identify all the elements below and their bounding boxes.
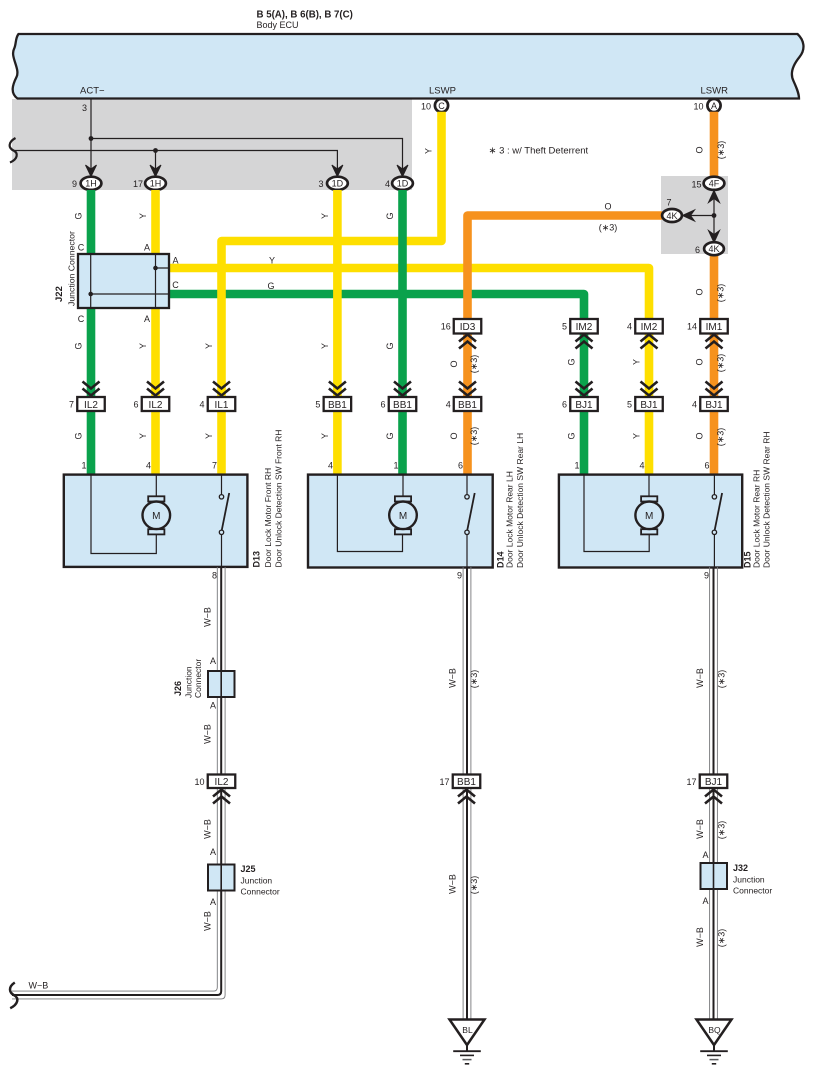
- chevron down above BB1 4: [459, 382, 476, 396]
- svg-text:10: 10: [421, 102, 431, 112]
- svg-text:(∗3): (∗3): [716, 354, 726, 373]
- connector box IL2 pin 10: [194, 775, 235, 789]
- D15 door lock motor rear RH box: [559, 475, 742, 568]
- svg-text:4: 4: [627, 322, 632, 332]
- svg-text:4K: 4K: [708, 244, 719, 254]
- svg-text:G: G: [74, 342, 84, 349]
- svg-text:6: 6: [562, 400, 567, 410]
- svg-text:A: A: [702, 850, 708, 860]
- D13 door lock motor front RH box: [64, 475, 248, 567]
- wire orange from LSWR A to 4F: [710, 112, 719, 177]
- svg-text:1: 1: [574, 461, 579, 471]
- arrow into 4 1D: [397, 165, 408, 177]
- svg-text:Connector: Connector: [241, 887, 280, 897]
- wire yellow column IL1 to D13: [217, 411, 226, 475]
- 4F 4K assembly internal wiring: [690, 190, 714, 242]
- junction node on ACT- wire: [89, 136, 94, 141]
- connector circle A pin 10: [693, 99, 720, 112]
- svg-text:D13: D13: [252, 551, 262, 568]
- svg-text:Connector: Connector: [193, 659, 203, 698]
- wire green column J22 to IL2: [87, 308, 96, 397]
- chevron up below IM1: [706, 335, 723, 349]
- svg-text:A: A: [144, 314, 150, 324]
- svg-text:(∗3): (∗3): [717, 929, 727, 948]
- svg-text:G: G: [385, 342, 395, 349]
- wire yellow column BJ1 to D15: [645, 411, 654, 475]
- wire green column IL2 to D13: [87, 411, 96, 475]
- svg-text:J32: J32: [733, 863, 748, 873]
- svg-text:4: 4: [146, 461, 151, 471]
- svg-text:C: C: [78, 243, 85, 253]
- wire orange IM1 to BJ1: [710, 334, 719, 398]
- D14 switch pin6: [465, 475, 475, 567]
- chevron down above BJ1 4: [706, 382, 723, 396]
- wire yellow column 1D3 to BB1: [333, 190, 342, 397]
- connector oval 4K pin 7: [662, 198, 682, 223]
- wire drop to 17 1H: [155, 151, 157, 169]
- svg-text:Door Unlock Detection SW Rear: Door Unlock Detection SW Rear LH: [515, 433, 525, 568]
- svg-text:10: 10: [194, 777, 204, 787]
- connector oval 1H pin 9: [72, 177, 101, 190]
- svg-text:Y: Y: [204, 343, 214, 349]
- svg-text:Y: Y: [632, 433, 642, 439]
- svg-text:Door Lock Motor Front RH: Door Lock Motor Front RH: [263, 468, 273, 568]
- svg-text:Y: Y: [138, 213, 148, 219]
- connector oval 4K pin 6: [695, 242, 724, 255]
- wire orange column ID3 to BB1: [463, 334, 472, 398]
- svg-text:Y: Y: [424, 148, 434, 154]
- arrow up into 15 4F: [709, 191, 720, 203]
- svg-text:W−B: W−B: [29, 981, 49, 991]
- svg-text:BB1: BB1: [393, 400, 412, 411]
- svg-text:J26: J26: [173, 681, 183, 696]
- svg-text:∗ 3 : w/ Theft Deterrent: ∗ 3 : w/ Theft Deterrent: [489, 146, 589, 157]
- svg-text:1: 1: [81, 461, 86, 471]
- D14 internal wire pin1 to motor: [402, 475, 404, 496]
- svg-text:5: 5: [315, 400, 320, 410]
- svg-text:Y: Y: [138, 343, 148, 349]
- svg-text:O: O: [449, 432, 459, 439]
- svg-text:O: O: [695, 432, 705, 439]
- wire orange from 6 4K to IM1: [710, 255, 719, 319]
- arrow into 9 1H: [86, 165, 97, 177]
- J26 junction connector: [208, 671, 235, 697]
- arrow down into 6 4K: [709, 231, 720, 243]
- J32 junction connector: [701, 863, 728, 889]
- svg-text:BJ1: BJ1: [640, 400, 658, 411]
- W-B wire from D14 pin 9 to BL ground: [463, 567, 471, 1019]
- junction node to 17 1H: [153, 148, 158, 153]
- svg-text:C: C: [172, 280, 179, 290]
- svg-text:W−B: W−B: [448, 874, 458, 894]
- svg-text:O: O: [695, 288, 705, 295]
- svg-text:A: A: [210, 656, 216, 666]
- W-B wire from D15 pin 9 to BQ ground: [710, 567, 718, 1019]
- svg-text:W−B: W−B: [203, 607, 213, 627]
- svg-text:A: A: [144, 243, 150, 253]
- svg-text:Junction: Junction: [733, 875, 765, 885]
- connector box BB1 pin 6: [380, 397, 416, 411]
- svg-text:6: 6: [133, 400, 138, 410]
- wire yellow column IL2 to D13: [151, 411, 160, 475]
- svg-text:W−B: W−B: [203, 724, 213, 744]
- D15 internal wire pin1 to motor: [584, 475, 649, 552]
- svg-text:17: 17: [686, 777, 696, 787]
- svg-text:G: G: [74, 212, 84, 219]
- connector box IM2 pin 4: [627, 319, 663, 334]
- D14 door lock motor rear LH box: [308, 475, 493, 568]
- svg-text:(∗3): (∗3): [716, 428, 726, 447]
- connector box BJ1 pin 6: [562, 397, 598, 411]
- svg-text:4F: 4F: [709, 179, 720, 189]
- svg-text:BJ1: BJ1: [705, 777, 723, 788]
- gray box around 4F/4K: [661, 176, 728, 254]
- connector box IL2 pin 6: [133, 397, 169, 411]
- svg-text:ID3: ID3: [460, 322, 476, 333]
- svg-text:BB1: BB1: [458, 400, 477, 411]
- motor M of D14: [389, 496, 417, 534]
- chevron down above BJ1 5: [641, 382, 658, 396]
- D15 internal wire pin4 to motor: [648, 475, 650, 496]
- D13 internal wire pin1 to motor: [91, 475, 156, 554]
- connector box ID3 pin 16: [441, 319, 482, 334]
- svg-text:W−B: W−B: [203, 911, 213, 931]
- wire yellow column J22 to IL2: [151, 308, 160, 397]
- svg-text:Connector: Connector: [733, 886, 772, 896]
- wire yellow column to BJ1 right: [645, 334, 654, 398]
- svg-text:5: 5: [627, 400, 632, 410]
- connector oval 1D pin 3: [318, 177, 347, 190]
- svg-text:M: M: [645, 511, 653, 522]
- svg-text:G: G: [385, 212, 395, 219]
- svg-text:(∗3): (∗3): [469, 355, 479, 374]
- chevron up below IM2 5: [576, 335, 593, 349]
- connector box BJ1 pin 5: [627, 397, 663, 411]
- arrow left into 7 4K: [683, 210, 695, 221]
- svg-text:A: A: [711, 101, 717, 111]
- svg-text:BL: BL: [462, 1025, 473, 1035]
- svg-text:Y: Y: [320, 433, 330, 439]
- connector oval 4F pin 15: [691, 177, 724, 190]
- svg-text:IM1: IM1: [706, 322, 723, 333]
- ground BL: [450, 1020, 485, 1064]
- chevron up below BJ1 17: [705, 790, 722, 804]
- svg-text:Door Lock Motor Rear LH: Door Lock Motor Rear LH: [505, 471, 515, 568]
- svg-text:G: G: [267, 281, 274, 291]
- svg-text:G: G: [567, 432, 577, 439]
- svg-text:15: 15: [691, 180, 701, 190]
- connector box BB1 pin 4: [446, 397, 482, 411]
- svg-text:Y: Y: [204, 433, 214, 439]
- svg-text:7: 7: [69, 400, 74, 410]
- chevron up below BB1 17: [458, 790, 475, 804]
- svg-text:IL1: IL1: [215, 400, 229, 411]
- svg-text:BB1: BB1: [328, 400, 347, 411]
- svg-text:Junction Connector: Junction Connector: [67, 231, 77, 306]
- connector box BJ1 pin 4: [692, 397, 728, 411]
- svg-text:(∗3): (∗3): [469, 670, 479, 689]
- svg-text:Body ECU: Body ECU: [257, 20, 299, 30]
- svg-text:4: 4: [692, 400, 697, 410]
- svg-text:17: 17: [133, 179, 143, 189]
- svg-text:4: 4: [328, 461, 333, 471]
- svg-text:5: 5: [562, 322, 567, 332]
- D14 internal wire pin4 to motor: [337, 475, 402, 552]
- svg-text:9: 9: [704, 571, 709, 581]
- wire green column 1D4 to BB1: [398, 190, 407, 397]
- svg-text:LSWP: LSWP: [429, 86, 456, 97]
- svg-text:O: O: [695, 358, 705, 365]
- svg-text:1H: 1H: [150, 179, 162, 189]
- connector oval 1H pin 17: [133, 177, 166, 190]
- wire green column to IM2 right: [580, 334, 589, 398]
- D13 internal wire pin4 to motor: [155, 475, 157, 496]
- chevron up below ID3: [459, 335, 476, 349]
- svg-text:4: 4: [385, 179, 390, 189]
- arrow into 3 1D: [332, 165, 343, 177]
- svg-text:IL2: IL2: [215, 777, 229, 788]
- svg-text:A: A: [210, 701, 216, 711]
- svg-text:BB1: BB1: [457, 777, 476, 788]
- svg-text:6: 6: [704, 461, 709, 471]
- svg-text:Y: Y: [269, 256, 275, 266]
- J25 junction connector: [208, 865, 235, 891]
- svg-text:(∗3): (∗3): [716, 284, 726, 303]
- svg-text:IL2: IL2: [84, 400, 98, 411]
- thin wire from ACT- pin 3: [90, 99, 92, 169]
- wire ACT- branch to 4 1D: [91, 139, 403, 169]
- motor M of D15: [635, 496, 663, 534]
- svg-text:G: G: [567, 358, 577, 365]
- svg-text:6: 6: [695, 245, 700, 255]
- wire green column 1H9 to J22: [87, 190, 96, 254]
- chevron down above IL2 7: [83, 382, 100, 396]
- chevron up below IL2 10: [213, 790, 230, 804]
- svg-text:Y: Y: [138, 433, 148, 439]
- svg-text:J25: J25: [241, 864, 256, 874]
- svg-text:1: 1: [393, 461, 398, 471]
- svg-text:G: G: [74, 432, 84, 439]
- svg-text:(∗3): (∗3): [716, 141, 726, 160]
- svg-text:W−B: W−B: [695, 819, 705, 839]
- svg-text:IM2: IM2: [641, 322, 658, 333]
- svg-text:C: C: [78, 314, 85, 324]
- W-B wire from D13 pin 8 down and left off-page: [12, 567, 225, 999]
- svg-text:O: O: [695, 146, 705, 153]
- svg-text:LSWR: LSWR: [701, 86, 729, 97]
- connector box IM1 pin 14: [687, 319, 728, 334]
- svg-text:10: 10: [693, 102, 703, 112]
- svg-text:J22: J22: [54, 286, 65, 302]
- connector box IL1 pin 4: [199, 397, 235, 411]
- connector box BJ1 pin 17: [686, 775, 727, 789]
- svg-text:4: 4: [446, 400, 451, 410]
- motor M of D13: [143, 496, 171, 534]
- svg-text:9: 9: [457, 571, 462, 581]
- svg-text:Door Unlock Detection SW Rear: Door Unlock Detection SW Rear RH: [762, 431, 772, 568]
- svg-text:ACT−: ACT−: [80, 86, 105, 97]
- svg-text:(∗3): (∗3): [469, 427, 479, 446]
- wire yellow column 1H17 to J22: [151, 190, 160, 254]
- wire yellow from J22 A to IM2 (horizontal then down): [165, 268, 649, 319]
- chevron up below IM2 4: [641, 335, 658, 349]
- svg-text:16: 16: [441, 322, 451, 332]
- svg-text:17: 17: [439, 777, 449, 787]
- svg-text:IL2: IL2: [149, 400, 163, 411]
- svg-text:M: M: [399, 511, 407, 522]
- svg-text:O: O: [604, 202, 611, 212]
- svg-text:9: 9: [72, 179, 77, 189]
- svg-text:IM2: IM2: [576, 322, 593, 333]
- wire yellow column BB1 to D14: [333, 411, 342, 475]
- svg-text:4: 4: [639, 461, 644, 471]
- wire orange BJ1 to D15: [710, 411, 719, 475]
- svg-text:A: A: [210, 897, 216, 907]
- svg-text:G: G: [385, 432, 395, 439]
- chevron down above BJ1 6: [576, 382, 593, 396]
- svg-text:Y: Y: [320, 343, 330, 349]
- gray harness band (left): [12, 99, 412, 190]
- svg-text:C: C: [438, 101, 445, 111]
- svg-text:O: O: [449, 360, 459, 367]
- svg-text:A: A: [172, 256, 178, 266]
- svg-text:Door Unlock Detection SW Front: Door Unlock Detection SW Front RH: [274, 430, 284, 568]
- svg-text:Junction: Junction: [241, 876, 273, 886]
- connector box BB1 pin 5: [315, 397, 351, 411]
- svg-text:A: A: [702, 896, 708, 906]
- svg-text:1H: 1H: [85, 179, 97, 189]
- svg-text:Junction: Junction: [184, 666, 194, 698]
- svg-text:(∗3): (∗3): [469, 876, 479, 895]
- svg-text:1D: 1D: [332, 179, 344, 189]
- connector circle C pin 10: [421, 99, 448, 112]
- connector oval 1D pin 4: [385, 177, 413, 190]
- svg-text:A: A: [210, 847, 216, 857]
- wire green column BB1 to D14: [398, 411, 407, 475]
- wire yellow from LSWP C down and left to IL1 column: [222, 112, 442, 397]
- D13 switch pin7: [219, 475, 229, 567]
- svg-text:M: M: [152, 511, 160, 522]
- svg-text:4: 4: [199, 400, 204, 410]
- svg-text:3: 3: [318, 179, 323, 189]
- chevron down above IL1 4: [213, 382, 230, 396]
- chevron down above BB1 6: [394, 382, 411, 396]
- svg-text:W−B: W−B: [203, 819, 213, 839]
- connector box BB1 pin 17: [439, 775, 480, 789]
- chevron down above BB1 5: [329, 382, 346, 396]
- svg-text:6: 6: [458, 461, 463, 471]
- wire green from J22 C to IM2 (horizontal then down): [165, 294, 584, 319]
- wire from off-page to 3 1D: [12, 151, 337, 169]
- ground BQ: [697, 1020, 732, 1064]
- svg-text:8: 8: [212, 571, 217, 581]
- J22 junction connector: [78, 254, 169, 308]
- svg-text:14: 14: [687, 322, 697, 332]
- Body ECU block B: [13, 34, 804, 99]
- svg-text:7: 7: [212, 461, 217, 471]
- D15 switch pin6: [712, 475, 722, 567]
- svg-text:3: 3: [82, 103, 87, 113]
- wire green column BJ1 to D15: [580, 411, 589, 475]
- svg-text:(∗3): (∗3): [599, 223, 618, 233]
- break mark top-left: [10, 138, 17, 163]
- svg-text:Y: Y: [320, 213, 330, 219]
- svg-text:7: 7: [666, 198, 671, 208]
- connector box IL2 pin 7: [69, 397, 105, 411]
- svg-text:BJ1: BJ1: [705, 400, 723, 411]
- svg-text:6: 6: [380, 400, 385, 410]
- svg-text:Door Lock Motor Rear RH: Door Lock Motor Rear RH: [752, 470, 762, 568]
- break mark bottom-left: [10, 983, 17, 1009]
- svg-text:(∗3): (∗3): [717, 670, 727, 689]
- svg-text:BJ1: BJ1: [575, 400, 593, 411]
- arrow into 17 1H: [150, 165, 161, 177]
- svg-text:(∗3): (∗3): [717, 821, 727, 840]
- svg-text:W−B: W−B: [695, 668, 705, 688]
- svg-text:BQ: BQ: [708, 1025, 721, 1035]
- wire orange column BB1 to D14: [463, 411, 472, 475]
- wire orange horizontal to 7 4K and down to ID3: [468, 216, 663, 320]
- svg-text:1D: 1D: [397, 179, 409, 189]
- svg-text:4K: 4K: [666, 211, 677, 221]
- svg-text:W−B: W−B: [448, 668, 458, 688]
- svg-text:Y: Y: [632, 359, 642, 365]
- connector box IM2 pin 5: [562, 319, 598, 334]
- chevron down above IL2 6: [147, 382, 164, 396]
- svg-text:W−B: W−B: [695, 927, 705, 947]
